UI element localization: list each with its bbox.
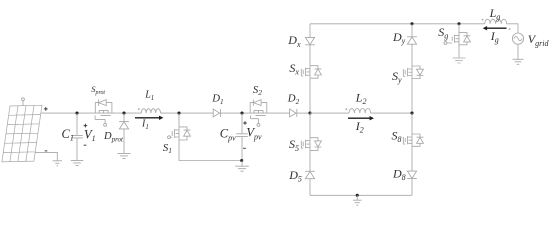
wire rail D1 to D2 bbox=[221, 112, 290, 114]
diode D_y bbox=[407, 37, 417, 44]
label S2 bbox=[253, 84, 262, 97]
node bridge left mid bbox=[308, 112, 311, 115]
transistor S1 bbox=[168, 127, 191, 140]
wire S_g to ground bbox=[458, 45, 460, 58]
node C1 bbox=[75, 112, 78, 115]
label D_prot bbox=[103, 131, 124, 143]
wire mid to S8 bbox=[411, 113, 413, 134]
wire S8 to D8 bbox=[411, 146, 413, 171]
AC source V_grid bbox=[512, 33, 523, 44]
node D_prot bbox=[122, 112, 125, 115]
transistor S_g bbox=[444, 33, 470, 45]
current arrow I2 bbox=[348, 116, 374, 120]
wire rail to S1 bbox=[178, 113, 180, 127]
capacitor C_pv bbox=[236, 113, 248, 160]
diode D2 bbox=[290, 109, 297, 117]
wire mid node to S5 bbox=[309, 113, 311, 138]
label S_prot bbox=[91, 84, 105, 96]
transistor S_y bbox=[403, 66, 423, 79]
wire S_x to mid node bbox=[309, 78, 311, 113]
label S_x bbox=[289, 61, 299, 77]
wire D_y to S_y bbox=[411, 44, 413, 66]
wire bridge left leg top bbox=[309, 24, 311, 38]
wire S1 source to bottom node bbox=[179, 140, 242, 161]
wire L_g to V_grid bbox=[507, 24, 518, 33]
polarity dot L1 bbox=[138, 108, 140, 110]
inductor L_g bbox=[485, 19, 507, 24]
label S_y bbox=[392, 69, 402, 85]
wire bridge top rail bbox=[310, 23, 485, 25]
ground V_grid bbox=[513, 59, 524, 64]
PV panel bbox=[2, 105, 42, 162]
node S_g bbox=[457, 22, 460, 25]
label + V_pv bbox=[243, 121, 247, 125]
ground C_pv bbox=[235, 166, 249, 171]
label I1 bbox=[141, 119, 149, 131]
wire rail to S_g bbox=[458, 24, 460, 33]
wire S5 to D5 bbox=[309, 150, 311, 171]
current arrow I_g bbox=[483, 26, 507, 30]
transistor S5 bbox=[301, 138, 321, 151]
wire D5 to bottom rail bbox=[309, 179, 311, 196]
wire rail L1 to D1 bbox=[161, 112, 214, 114]
label D1 bbox=[211, 93, 223, 106]
polarity dot V_grid bbox=[509, 28, 511, 30]
ground S_g bbox=[453, 58, 466, 63]
node bridge right top bbox=[410, 22, 413, 25]
label V_grid bbox=[528, 32, 550, 48]
transistor S2 bbox=[250, 100, 267, 127]
transistor S_prot bbox=[95, 100, 112, 127]
wire V_grid to ground bbox=[517, 44, 519, 59]
label L_g bbox=[489, 6, 501, 22]
node bridge right mid bbox=[410, 112, 413, 115]
label S1 bbox=[163, 142, 172, 155]
diode D_prot bbox=[119, 122, 129, 129]
diode D5 bbox=[305, 171, 315, 178]
current arrow I1 bbox=[135, 116, 163, 120]
PV positive terminal bbox=[22, 98, 25, 106]
inductor L2 bbox=[349, 109, 371, 114]
label L2 bbox=[355, 90, 367, 106]
node bottom ground bbox=[356, 194, 359, 197]
transistor S_x bbox=[301, 66, 321, 79]
label + PV terminal bbox=[44, 107, 48, 111]
ground C1 bbox=[71, 160, 84, 165]
wire main rail PV to L1 bbox=[41, 112, 142, 114]
label S5 bbox=[289, 137, 299, 153]
wire rail to D_prot bbox=[123, 113, 125, 121]
wire D8 to bottom rail bbox=[411, 179, 413, 196]
label D2 bbox=[287, 93, 300, 106]
diode D8 bbox=[407, 171, 417, 178]
label - V_pv bbox=[243, 147, 246, 149]
wire right leg top bbox=[411, 24, 413, 37]
wire D_x to S_x bbox=[309, 45, 311, 66]
label - PV negative bbox=[45, 150, 48, 152]
ground bridge bbox=[353, 200, 362, 205]
ground PV bbox=[53, 161, 63, 166]
link rail mid left bbox=[310, 112, 349, 114]
label S8 bbox=[392, 128, 402, 144]
label + V1 bbox=[84, 124, 88, 128]
wire D2 to bridge left mid node bbox=[297, 112, 310, 114]
label I2 bbox=[355, 119, 364, 135]
label L1 bbox=[144, 90, 154, 102]
wire PV negative to ground bbox=[35, 152, 57, 160]
label D5 bbox=[288, 168, 302, 184]
label V1 bbox=[84, 127, 96, 143]
wire S_y to right mid node bbox=[411, 79, 413, 114]
node C_pv bbox=[240, 112, 243, 115]
label - V1 bbox=[84, 144, 87, 146]
node S1 bbox=[177, 112, 180, 115]
wire bridge bottom rail bbox=[310, 194, 412, 196]
label D8 bbox=[392, 167, 406, 183]
label D_x bbox=[287, 33, 301, 49]
diode D1 bbox=[213, 109, 220, 117]
inductor L1 bbox=[141, 109, 160, 113]
label C_pv bbox=[220, 127, 236, 143]
label V_pv bbox=[246, 126, 262, 142]
label D_y bbox=[392, 30, 406, 46]
ground D_prot bbox=[118, 153, 131, 158]
label S_g bbox=[438, 25, 448, 41]
node C_pv bottom bbox=[240, 159, 243, 162]
capacitor C1 bbox=[71, 113, 83, 160]
diode D_x bbox=[305, 37, 315, 44]
label I_g bbox=[490, 29, 499, 45]
polarity dot L2 bbox=[346, 108, 348, 110]
transistor S8 bbox=[403, 134, 423, 146]
label C1 bbox=[62, 127, 74, 143]
link rail mid right bbox=[371, 112, 412, 114]
polarity dot L_g bbox=[482, 19, 484, 21]
